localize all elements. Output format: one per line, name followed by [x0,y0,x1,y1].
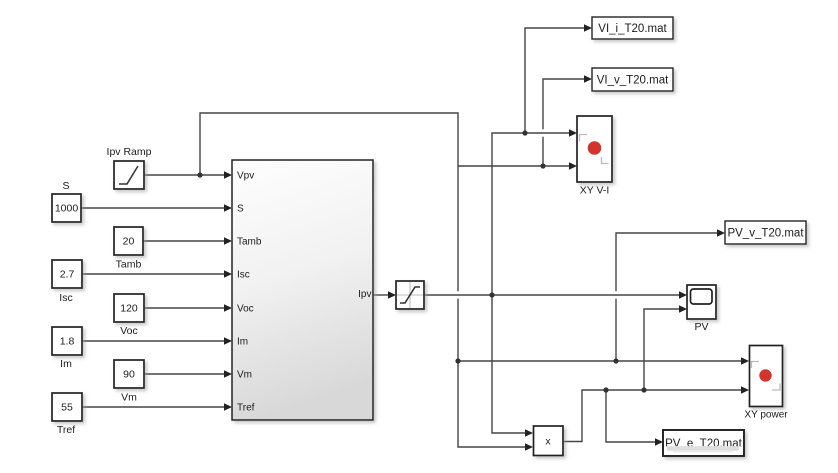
svg-text:PV_v_T20.mat: PV_v_T20.mat [727,228,804,240]
svg-text:20: 20 [123,236,135,248]
svg-text:Voc: Voc [237,304,254,315]
svg-text:Isc: Isc [237,270,250,281]
svg-text:120: 120 [120,303,138,315]
svg-text:XY V-I: XY V-I [580,185,610,197]
svg-text:VI_v_T20.mat: VI_v_T20.mat [597,75,669,87]
svg-text:S: S [62,180,69,192]
svg-text:Ipv: Ipv [358,289,371,300]
svg-text:Vpv: Vpv [237,171,254,182]
svg-text:Vm: Vm [237,370,252,381]
svg-text:x: x [545,436,551,448]
svg-text:XY power: XY power [744,410,788,421]
svg-text:Voc: Voc [120,325,138,337]
svg-text:Tamb: Tamb [116,259,142,271]
svg-text:1000: 1000 [55,203,79,215]
svg-text:VI_i_T20.mat: VI_i_T20.mat [598,23,667,35]
svg-text:Im: Im [237,337,248,348]
svg-text:90: 90 [123,369,135,381]
svg-text:Im: Im [60,358,72,370]
svg-text:Vm: Vm [121,392,137,404]
svg-text:S: S [237,204,244,215]
svg-text:1.8: 1.8 [60,336,75,348]
svg-text:Isc: Isc [59,292,72,304]
svg-text:55: 55 [61,402,73,414]
svg-text:Tref: Tref [237,403,255,414]
svg-text:Tref: Tref [57,424,75,436]
svg-text:2.7: 2.7 [60,269,75,281]
svg-text:Ipv Ramp: Ipv Ramp [107,146,152,158]
svg-text:Tamb: Tamb [237,237,262,248]
svg-text:PV: PV [694,321,708,333]
